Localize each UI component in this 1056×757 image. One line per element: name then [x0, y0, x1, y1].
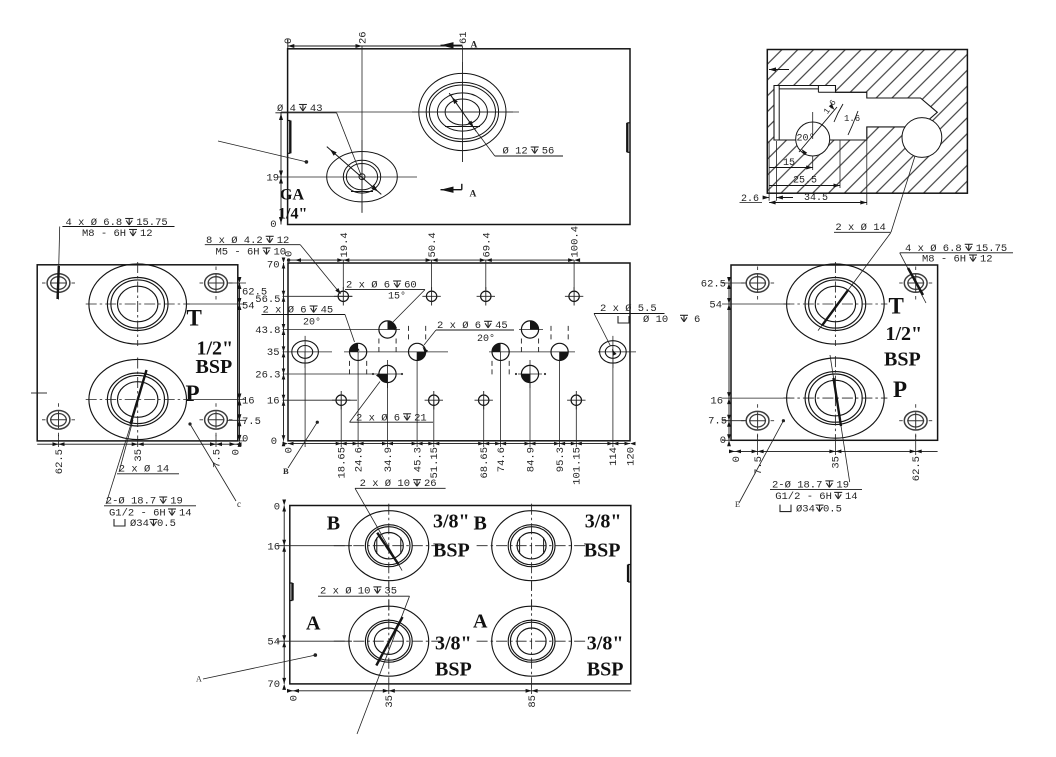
B port left	[349, 511, 429, 581]
svg-text:35: 35	[133, 449, 145, 462]
svg-text:84.9: 84.9	[525, 447, 537, 472]
svg-text:34.5: 34.5	[804, 193, 828, 204]
surface finish 1.6 marks	[822, 98, 839, 116]
svg-text:7.5: 7.5	[708, 416, 727, 428]
left edge centre tick	[31, 392, 47, 394]
svg-text:A: A	[196, 675, 202, 684]
cavity thread wall lines	[778, 86, 780, 141]
right end view plate outline	[731, 265, 938, 440]
view letter c with leader	[190, 424, 236, 501]
svg-text:45.3: 45.3	[412, 447, 424, 472]
svg-text:2.6: 2.6	[741, 194, 759, 205]
svg-text:0: 0	[271, 436, 277, 448]
svg-text:Ø34: Ø34	[796, 504, 815, 516]
svg-text:20°: 20°	[477, 333, 495, 345]
svg-text:T: T	[187, 306, 202, 331]
svg-text:101.15: 101.15	[572, 447, 584, 485]
svg-text:61: 61	[458, 31, 470, 44]
svg-text:BSP: BSP	[435, 659, 472, 681]
drill ball circle right	[902, 118, 942, 158]
svg-text:0.5: 0.5	[157, 518, 176, 530]
left view mounting bolt holes	[47, 274, 70, 293]
section dim 2.6	[764, 197, 770, 199]
section arrow A lower	[461, 184, 463, 190]
bottom view outline	[290, 506, 631, 684]
extension line x=26 down to gauge port	[361, 46, 363, 212]
svg-text:16: 16	[242, 396, 255, 408]
quadrant-marked function ports dia 6	[350, 343, 367, 360]
leader with dot to top view face	[218, 141, 306, 162]
svg-text:B: B	[327, 513, 340, 535]
svg-text:T: T	[889, 293, 904, 318]
top view: manifold plan outline	[288, 49, 630, 225]
svg-text:3/8": 3/8"	[433, 511, 470, 533]
svg-text:14: 14	[845, 491, 858, 503]
svg-text:A: A	[470, 190, 477, 200]
svg-text:0: 0	[270, 219, 276, 231]
svg-text:A: A	[306, 613, 321, 635]
svg-text:62.5: 62.5	[911, 456, 923, 481]
20 degree angle line with arrows	[799, 107, 837, 152]
ball circle in cavity	[796, 122, 830, 156]
svg-text:P: P	[893, 377, 907, 402]
svg-text:BSP: BSP	[587, 659, 624, 681]
bottom row M5 holes	[336, 395, 346, 405]
svg-text:51.15: 51.15	[429, 447, 441, 479]
section dim 15	[768, 141, 770, 201]
svg-text:14: 14	[179, 508, 192, 520]
right-side dimension lines	[239, 283, 241, 441]
svg-text:114: 114	[608, 447, 620, 466]
svg-text:24.6: 24.6	[353, 447, 365, 472]
svg-text:P: P	[186, 381, 200, 406]
top dimension line of front view	[290, 259, 574, 261]
B port right	[492, 511, 572, 581]
gauge port crosshair	[361, 140, 363, 213]
svg-text:34.9: 34.9	[383, 447, 395, 472]
small arrow top-left of section	[769, 69, 789, 71]
cavity crosshair	[412, 111, 519, 113]
vertical ext lines to bottom dims	[304, 352, 306, 447]
svg-text:35: 35	[831, 456, 843, 469]
bottom view left edge notch	[291, 583, 293, 601]
svg-text:BSP: BSP	[196, 356, 233, 378]
section dim 34.5	[866, 127, 868, 205]
svg-text:B: B	[474, 513, 487, 535]
front (valve face) view outline	[288, 263, 630, 441]
side drilling rings dia 10	[292, 341, 319, 363]
svg-text:25.5: 25.5	[793, 176, 817, 187]
svg-text:35: 35	[384, 585, 397, 597]
svg-text:35: 35	[267, 347, 280, 359]
bottom view right edge notch	[627, 565, 629, 583]
svg-text:E: E	[735, 500, 740, 509]
view letter A with leader	[203, 655, 315, 679]
left dim column of bottom view	[283, 506, 285, 684]
left vertical dim line	[283, 263, 285, 441]
svg-text:0.5: 0.5	[823, 504, 842, 516]
P port right view	[787, 358, 885, 438]
svg-text:15°: 15°	[388, 291, 406, 303]
svg-text:35: 35	[384, 695, 396, 708]
svg-text:20°: 20°	[303, 317, 321, 329]
right view mounting bolt holes	[746, 274, 769, 293]
svg-text:26: 26	[358, 31, 370, 44]
top view left edge notch	[289, 121, 291, 154]
T port right view	[787, 264, 885, 344]
svg-text:20°: 20°	[797, 133, 815, 145]
svg-text:B: B	[283, 466, 289, 476]
svg-text:69.4: 69.4	[481, 232, 493, 257]
ball vertical line	[812, 112, 814, 139]
svg-text:1.6: 1.6	[844, 114, 860, 124]
svg-text:0: 0	[720, 435, 726, 447]
svg-text:16: 16	[710, 396, 723, 408]
leaders from P port to callout	[830, 355, 850, 482]
svg-text:3/8": 3/8"	[587, 633, 624, 655]
P port 1/2 BSP	[89, 359, 187, 439]
gauge port GA 1/4 circles	[327, 152, 398, 202]
bottom dims of right view	[731, 450, 938, 452]
svg-text:0: 0	[274, 502, 280, 514]
svg-text:M8 - 6H: M8 - 6H	[922, 254, 966, 266]
top row ext lines	[342, 260, 344, 290]
left-side dims of right view	[728, 283, 730, 440]
svg-text:7.5: 7.5	[242, 416, 261, 428]
svg-text:10: 10	[274, 247, 287, 259]
diagonal arrow line across gauge port	[327, 147, 382, 195]
svg-text:1/2": 1/2"	[886, 323, 923, 345]
svg-text:15: 15	[783, 158, 795, 169]
row centrelines	[283, 295, 353, 297]
svg-text:M5 - 6H: M5 - 6H	[216, 247, 260, 259]
view letter B with leader	[288, 422, 317, 468]
svg-text:16: 16	[267, 396, 280, 408]
svg-text:Ø 10: Ø 10	[643, 314, 668, 326]
svg-text:0: 0	[731, 456, 743, 462]
view letter E with leader	[739, 421, 783, 503]
svg-text:54: 54	[242, 301, 255, 313]
A port left	[349, 606, 429, 676]
section arrow A on dim line	[441, 42, 454, 48]
centreline of cavity row y=112	[281, 111, 513, 113]
svg-text:0: 0	[231, 449, 243, 455]
svg-text:Ø34: Ø34	[130, 518, 149, 530]
svg-text:70: 70	[267, 259, 280, 271]
bottom dim line of bottom view	[290, 690, 631, 692]
svg-text:0: 0	[242, 434, 248, 446]
svg-text:A: A	[471, 41, 478, 51]
main cartridge cavity circles	[419, 73, 506, 150]
svg-text:95.3: 95.3	[555, 447, 567, 472]
svg-text:68.65: 68.65	[479, 447, 491, 479]
svg-text:120: 120	[625, 447, 637, 466]
svg-text:BSP: BSP	[584, 540, 621, 562]
svg-text:1/4": 1/4"	[278, 206, 307, 223]
svg-text:54: 54	[709, 300, 722, 312]
svg-text:12: 12	[140, 228, 153, 240]
svg-text:G1/2 - 6H: G1/2 - 6H	[775, 491, 832, 503]
svg-text:16: 16	[267, 542, 280, 554]
T port 1/2 BSP	[89, 264, 187, 344]
svg-text:2 x Ø 10: 2 x Ø 10	[320, 585, 370, 597]
top row M5 holes	[338, 291, 348, 301]
svg-text:85: 85	[527, 695, 539, 708]
svg-text:54: 54	[267, 637, 280, 649]
svg-text:0: 0	[288, 695, 300, 701]
svg-text:BSP: BSP	[433, 540, 470, 562]
svg-text:3/8": 3/8"	[435, 633, 472, 655]
svg-text:18.65: 18.65	[337, 447, 349, 479]
leader from label to gauge port	[337, 113, 361, 175]
svg-text:GA: GA	[280, 187, 304, 204]
svg-text:3/8": 3/8"	[585, 511, 622, 533]
left end view plate outline	[37, 265, 238, 441]
extension line x=61 down to cavity centre	[461, 46, 463, 162]
svg-text:M8 - 6H: M8 - 6H	[82, 228, 126, 240]
cavity cut-out white	[774, 86, 937, 141]
svg-text:50.4: 50.4	[427, 232, 439, 257]
svg-text:BSP: BSP	[884, 349, 921, 371]
svg-text:26.3: 26.3	[255, 369, 280, 381]
svg-text:19.4: 19.4	[339, 232, 351, 257]
svg-text:0: 0	[283, 447, 295, 453]
top view horizontal dimension line (0-26-61)	[288, 45, 463, 47]
left vertical dimension line of top view	[280, 112, 282, 225]
gauge row line y=177	[277, 176, 417, 178]
svg-text:c: c	[237, 499, 241, 509]
section dim 25.5	[839, 140, 841, 188]
svg-text:62.5: 62.5	[701, 278, 726, 290]
svg-text:12: 12	[980, 254, 993, 266]
svg-text:0: 0	[283, 38, 295, 44]
svg-text:100.4: 100.4	[570, 226, 582, 258]
A port right	[492, 606, 572, 676]
diameter 12 depth 56 label and leader	[449, 93, 476, 131]
svg-text:19: 19	[266, 173, 279, 185]
svg-text:43.8: 43.8	[255, 325, 280, 337]
section view A-A hatched block	[767, 50, 967, 194]
bottom dimension line	[288, 443, 630, 445]
vertical dashdot between ports	[388, 580, 390, 612]
top view right edge notch	[626, 123, 628, 153]
svg-text:7.5: 7.5	[211, 449, 223, 468]
svg-text:6: 6	[694, 314, 700, 326]
svg-text:62.5: 62.5	[54, 449, 66, 474]
svg-text:70: 70	[267, 679, 280, 691]
svg-text:A: A	[473, 611, 488, 633]
leader up from dia14 label to drilled ball	[891, 156, 915, 232]
svg-text:74.6: 74.6	[496, 447, 508, 472]
bottom dimension line of left view	[37, 443, 238, 445]
